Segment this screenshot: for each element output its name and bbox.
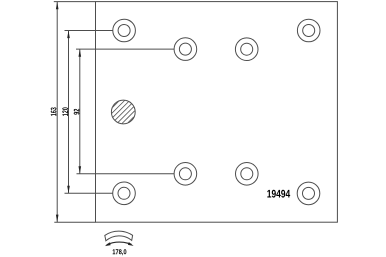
leader to hole H6: [77, 173, 175, 175]
rivet hole H2: [174, 38, 197, 61]
dimension line 92: [79, 49, 82, 174]
part number 19494: [267, 190, 290, 198]
bottom extension line: [54, 221, 95, 223]
brake lining outline: [96, 2, 338, 223]
leader to hole H2: [76, 48, 174, 50]
rivet hole H4: [297, 19, 320, 42]
rivet hole H1: [113, 19, 136, 42]
leader to hole H1: [65, 30, 114, 32]
label 92: [74, 109, 80, 115]
rivet hole H3: [235, 38, 258, 61]
rivet hole H7: [236, 163, 259, 186]
rivet hole H5: [113, 182, 136, 205]
dimension line 120: [67, 31, 70, 194]
dimension line 163: [56, 2, 59, 223]
leader to hole H5: [65, 192, 113, 194]
label 120: [62, 107, 68, 115]
label 178,0: [113, 249, 127, 255]
hatched hole: [111, 100, 135, 124]
curvature arrow: [105, 242, 134, 246]
rivet hole H6: [174, 163, 197, 186]
top extension line: [54, 1, 96, 3]
rivet hole H8: [297, 182, 320, 205]
label 163: [51, 107, 57, 115]
cross-section arc icon: [105, 231, 133, 241]
